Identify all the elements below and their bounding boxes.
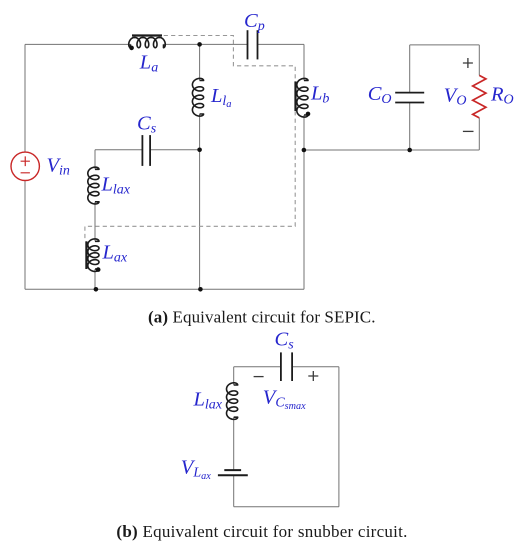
svg-text:VLax: VLax [181, 457, 211, 483]
svg-text:Lax: Lax [102, 242, 128, 266]
svg-text:CO: CO [368, 83, 392, 107]
svg-text:Vin: Vin [47, 155, 70, 179]
svg-text:VO: VO [444, 85, 467, 109]
svg-text:Cp: Cp [244, 10, 265, 34]
svg-text:Cs: Cs [137, 113, 157, 137]
svg-text:Lb: Lb [310, 83, 329, 107]
svg-text:Llax: Llax [101, 174, 131, 198]
svg-text:Llax: Llax [193, 389, 223, 413]
svg-text:La: La [139, 52, 158, 76]
svg-text:(b) Equivalent circuit for snu: (b) Equivalent circuit for snubber circu… [116, 522, 407, 541]
svg-text:VCsmax: VCsmax [263, 387, 306, 413]
svg-text:Lla: Lla [210, 85, 232, 110]
svg-text:(a) Equivalent circuit for SEP: (a) Equivalent circuit for SEPIC. [148, 307, 376, 326]
svg-text:Cs: Cs [275, 329, 295, 353]
svg-text:RO: RO [490, 84, 514, 108]
